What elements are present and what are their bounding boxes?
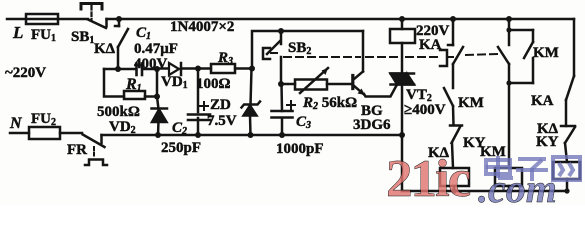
wire collector drop <box>362 31 365 72</box>
pushbutton SB1 actuator dashed <box>81 4 102 10</box>
wire R2 to base <box>327 83 352 86</box>
branch2 stub top <box>508 19 511 30</box>
resistor R3 <box>211 64 235 73</box>
branch1 bracket <box>440 50 447 66</box>
svg-text:C1: C1 <box>136 25 151 42</box>
svg-text:SB1: SB1 <box>71 29 94 46</box>
wire VD1 to R3 <box>181 67 211 70</box>
svg-text:R1: R1 <box>125 76 142 94</box>
branch1 stub KA <box>452 19 455 45</box>
branch2 split bar <box>509 29 533 32</box>
zener ZD <box>242 102 261 108</box>
mech linkage dashed line <box>271 52 277 54</box>
wire R1 branch left <box>104 69 124 97</box>
fuse FU2 <box>29 127 60 139</box>
wire KD to block <box>117 47 120 69</box>
watermark 21ic <box>386 150 557 211</box>
pushbutton SB2 blade <box>267 41 280 54</box>
pushbutton SB1 blade <box>88 20 106 29</box>
branch3 wire right edge <box>573 19 576 76</box>
transistor BG emitter <box>354 86 365 95</box>
wire VD2 to rail <box>157 97 159 110</box>
wire R3 to node <box>235 67 252 70</box>
branch1 coil to rail <box>453 186 456 191</box>
branch3 coil to rail <box>566 179 569 191</box>
watermark char wang <box>553 157 580 180</box>
svg-text:250pF: 250pF <box>161 140 201 156</box>
resistor R1 <box>124 91 145 99</box>
contact FR blade <box>83 135 105 148</box>
plus sign C2 <box>200 105 208 107</box>
wire KA coil to triac <box>401 43 404 74</box>
wire ZD to rail <box>251 69 252 106</box>
svg-text:400V: 400V <box>134 56 168 72</box>
capacitor C2 plates <box>188 113 210 116</box>
wire R1 branch right <box>145 95 157 98</box>
pushbutton SB2 bracket <box>263 48 270 59</box>
relay coil KA box <box>390 29 415 43</box>
FR heater element <box>85 160 107 166</box>
svg-text:500kΩ: 500kΩ <box>97 104 140 120</box>
wire C2 to rail <box>197 118 200 135</box>
wire R2 left <box>281 83 295 86</box>
svg-text:FR: FR <box>67 142 87 158</box>
transistor BG collector <box>354 72 364 80</box>
pushbutton SB2 stub <box>280 31 283 44</box>
wire right vertical of block <box>156 69 159 97</box>
watermark char dian <box>486 156 580 181</box>
fuse FU1 <box>26 14 58 24</box>
wire bottom rail right <box>402 190 567 193</box>
svg-text:KM: KM <box>533 45 559 61</box>
wire N neutral bottom-left <box>10 132 29 135</box>
svg-text:L: L <box>12 23 23 42</box>
svg-text:KA: KA <box>419 37 442 53</box>
contact FR dashes <box>93 147 95 158</box>
relay coil KA stub <box>401 19 404 29</box>
watermark char zi <box>518 157 546 161</box>
branch1 wire mid2 <box>452 106 455 125</box>
wire emitter to gate <box>364 85 397 97</box>
svg-text:1N4007×2: 1N4007×2 <box>170 19 234 35</box>
svg-text:VD2: VD2 <box>109 119 136 136</box>
svg-text:C2: C2 <box>172 120 187 137</box>
wire L phase top-left <box>7 18 88 21</box>
transistor BG base bar <box>351 76 354 89</box>
svg-text:R3: R3 <box>217 50 233 67</box>
branch2 rejoin bar <box>509 82 533 85</box>
svg-text:N: N <box>9 115 23 132</box>
coil KY box <box>553 162 580 179</box>
contact KD blade <box>118 29 128 47</box>
wire C1 to node <box>143 68 158 71</box>
branch3 wire mid <box>565 100 568 126</box>
pushbutton SB2 lower stub <box>280 57 283 84</box>
svg-text:≥400V: ≥400V <box>404 102 446 118</box>
svg-text:C3: C3 <box>296 114 311 131</box>
svg-text:KY: KY <box>536 134 559 150</box>
branch3 contact KA blade <box>566 76 574 100</box>
svg-text:100Ω: 100Ω <box>196 76 231 92</box>
coil KM box <box>495 168 522 186</box>
plus sign C3 <box>287 104 295 106</box>
svg-text:KM: KM <box>480 144 506 160</box>
wire C1 top left <box>104 68 136 71</box>
svg-text:R2 56kΩ: R2 56kΩ <box>302 95 357 112</box>
svg-text:FU2: FU2 <box>31 111 56 128</box>
capacitor C3 plates <box>272 110 293 113</box>
svg-text:VD1: VD1 <box>161 74 188 91</box>
svg-text:KM: KM <box>458 95 484 111</box>
diode VD1 <box>169 63 179 75</box>
branch2 left contact KA <box>508 30 511 45</box>
branch2 right contact KM <box>532 30 535 42</box>
branch2 wire down <box>508 83 511 168</box>
branch1 contact KY NC <box>450 124 462 127</box>
branch3 wire to coil <box>565 143 567 162</box>
svg-text:ZD: ZD <box>210 97 231 113</box>
wire triac to rail junction <box>401 85 404 136</box>
svg-text:KΔ: KΔ <box>94 41 116 57</box>
branch1 wire mid <box>452 64 455 88</box>
branch1 contact KM blade <box>444 88 453 106</box>
svg-text:0.47μF: 0.47μF <box>134 41 178 57</box>
svg-text:~220V: ~220V <box>5 65 46 81</box>
wire rail drop <box>401 135 404 191</box>
diode VD2 <box>152 107 168 110</box>
svg-text:7.5V: 7.5V <box>207 113 237 129</box>
coil KD box <box>440 168 469 186</box>
wire C3 to rail <box>281 118 284 135</box>
branch1 contact KA blade <box>453 47 463 64</box>
svg-text:3DG6: 3DG6 <box>353 117 391 133</box>
potentiometer R2 <box>295 80 327 90</box>
branch2 coil to rail <box>508 186 511 191</box>
svg-text:FU1: FU1 <box>31 27 56 44</box>
branch3 contact KD NC <box>561 125 575 128</box>
capacitor C1 plates <box>135 64 138 76</box>
branch1 wire to coil <box>452 143 453 168</box>
wire top rail <box>107 18 575 21</box>
wire C3 branch <box>280 84 283 111</box>
wire C2 branch <box>197 69 200 113</box>
triac VT2 <box>391 72 415 75</box>
svg-text:1000pF: 1000pF <box>276 141 324 157</box>
wire supply up-over to collector <box>252 31 363 69</box>
svg-text:21ic: 21ic <box>386 150 471 205</box>
wire bottom rail left <box>102 134 403 137</box>
svg-text:SB2: SB2 <box>288 40 311 57</box>
contact KD stub <box>118 19 121 26</box>
svg-text:KA: KA <box>531 93 554 109</box>
wire FU2 to FR <box>60 132 82 135</box>
wire VD1 anode <box>157 67 168 70</box>
